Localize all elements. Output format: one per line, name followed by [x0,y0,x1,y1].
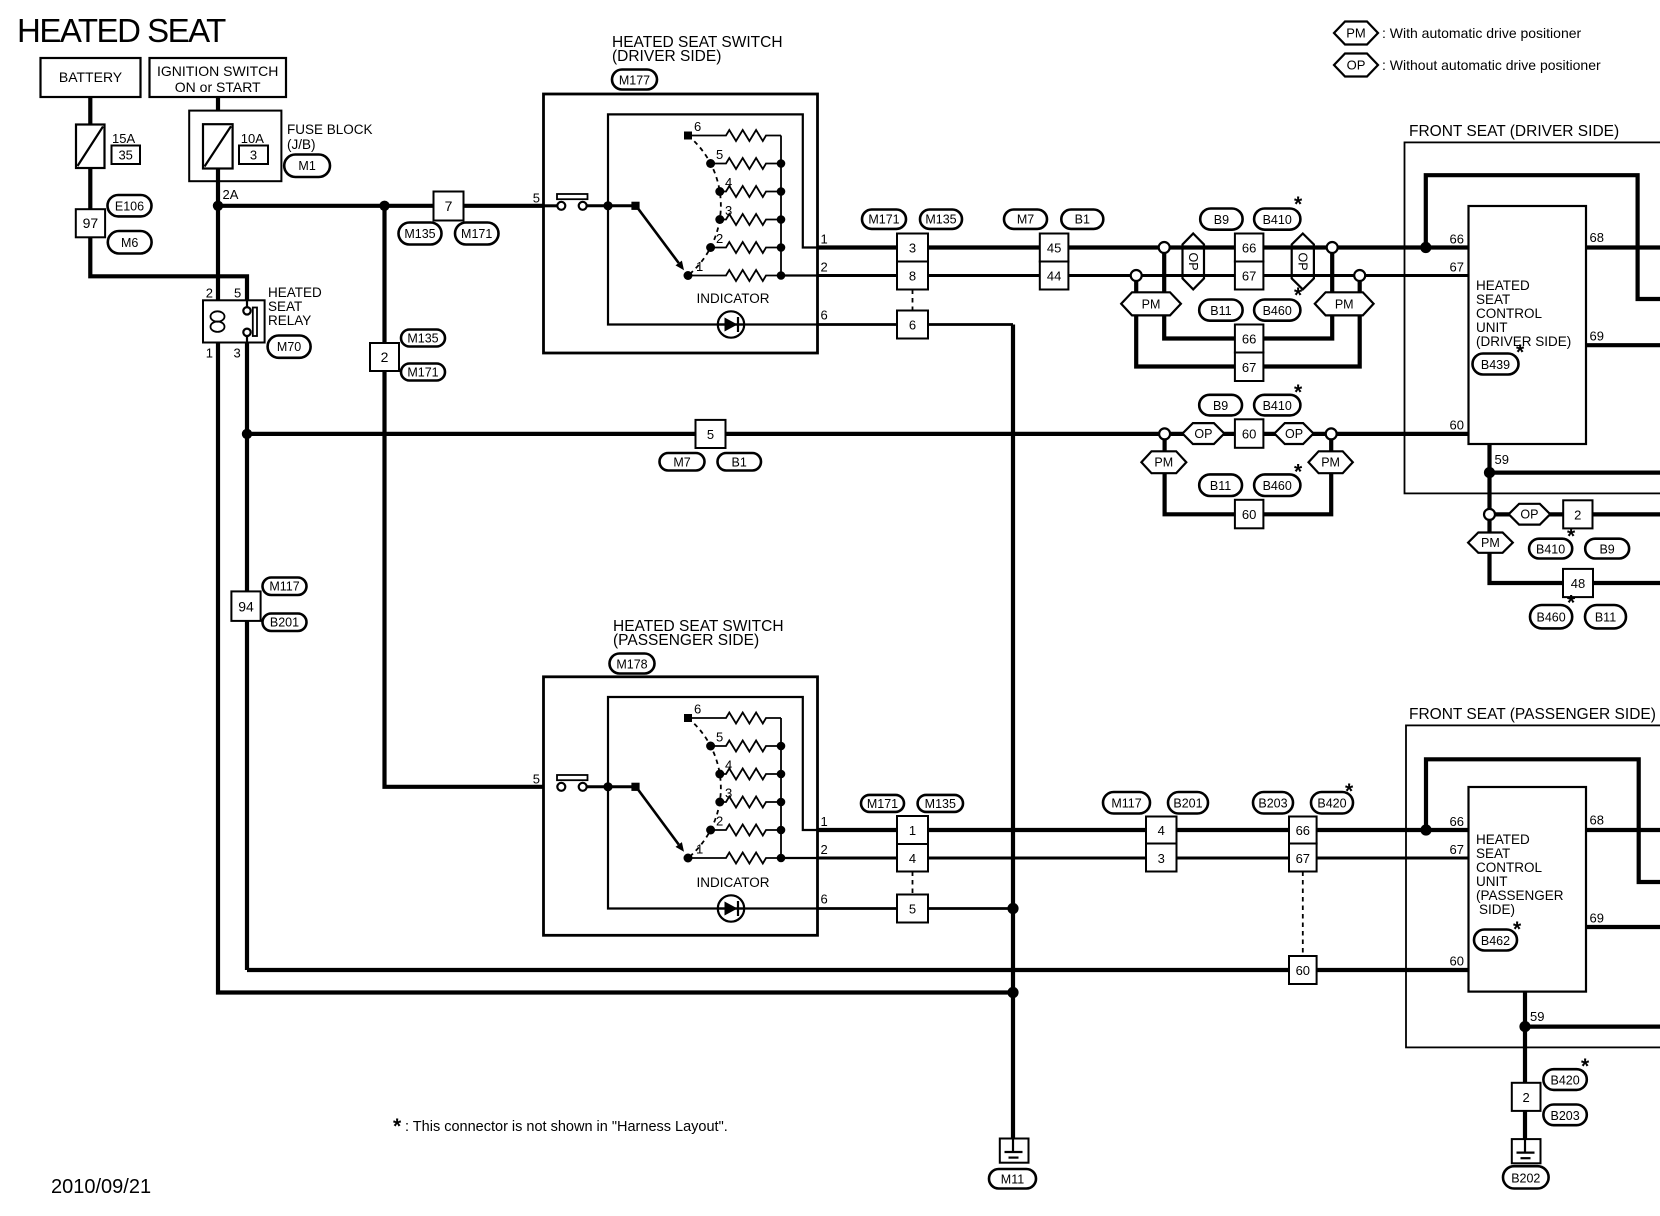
svg-text:B410: B410 [1263,213,1292,227]
driver thick feed loop top [1426,175,1660,299]
svg-text:M135: M135 [407,332,438,346]
passenger switch position 3 contact [715,798,724,807]
connector label B1 [1061,210,1103,229]
svg-text:ON or START: ON or START [175,79,261,95]
junction indicator return to ground column [1007,903,1018,914]
driver switch position 3 contact [715,215,724,224]
svg-text:60: 60 [1296,963,1310,978]
wire circle to OP connector 2 [1495,512,1563,516]
junction driver pin 66 node [1420,242,1431,253]
wire passenger feed column [385,206,544,787]
svg-text:M7: M7 [673,456,690,470]
connector label M117 [1103,792,1150,814]
svg-text:5: 5 [716,147,723,162]
svg-text:66: 66 [1450,814,1464,829]
wire connector 48 output right [1593,581,1660,585]
wire driver unit pin 59 down [1487,444,1491,514]
passenger switch indicator LED diode [718,895,744,921]
driver switch pushbutton contacts [557,202,565,210]
svg-text:66: 66 [1296,823,1310,838]
svg-text:OP: OP [1347,58,1366,73]
svg-text:M171: M171 [868,213,899,227]
driver PM hexagon right [1315,292,1374,315]
connector 4/3 M117/B201 [1146,817,1177,844]
svg-text:35: 35 [118,148,132,163]
connector label B410 with asterisk [1254,395,1300,416]
svg-text:B9: B9 [1214,213,1229,227]
svg-text:FUSE BLOCK: FUSE BLOCK [287,122,373,137]
svg-text:60: 60 [1242,507,1256,522]
driver switch pushbutton wire out [587,204,636,207]
svg-text:HEATED: HEATED [1476,832,1530,847]
svg-text:*: * [1294,193,1303,216]
svg-text:M70: M70 [277,340,301,354]
driver switch junction on bus [603,201,612,210]
connector label B9 [1585,539,1629,559]
svg-text:B410: B410 [1263,399,1292,413]
svg-text:5: 5 [909,902,916,917]
svg-text:2: 2 [1522,1090,1529,1105]
driver switch resistor row 1 [688,270,781,281]
wire 60 row right segment to control unit [1331,432,1468,436]
wire bottom feed run to passenger unit pin 60 [247,968,1469,972]
driver switch pushbutton wire in [544,204,558,207]
connector label B9 [1200,209,1242,230]
passenger switch resistor row 5 [711,741,781,752]
svg-text:5: 5 [707,427,714,442]
svg-text:B460: B460 [1263,304,1292,318]
dashed connector link 4 to 5 [912,872,914,895]
driver switch resistor bus [780,136,782,276]
connector label B462 with asterisk [1474,930,1517,951]
svg-text:M11: M11 [1001,1173,1024,1187]
dashed connector link 67 to 60 [1302,872,1304,957]
svg-text:CONTROL: CONTROL [1476,860,1542,875]
front seat passenger side box [1406,725,1660,1047]
connector label B201 [1168,792,1208,814]
battery B+ box [41,58,141,97]
driver switch position 6 contact [684,132,692,140]
relay contact bar [253,308,257,337]
passenger switch resistor bus [780,718,782,858]
connector label B11 [1585,605,1626,628]
svg-text:: This connector is not shown: : This connector is not shown in "Harnes… [405,1119,728,1135]
svg-text:67: 67 [1242,269,1256,284]
driver switch pin 2 inner wire [781,274,818,276]
connector label B11 [1199,474,1242,496]
branch circles on 66/67 rows [1159,242,1170,253]
svg-text:M117: M117 [1111,797,1141,811]
svg-text:60: 60 [1450,418,1464,433]
wire 59 row output right [1525,1024,1660,1028]
connector 60 OP B9/B410 [1235,419,1264,448]
svg-text:2: 2 [381,349,389,365]
svg-text:M135: M135 [404,227,435,241]
svg-text:B1: B1 [1075,213,1090,227]
passenger switch position 4 contact [715,770,724,779]
svg-text:M177: M177 [619,74,650,88]
svg-text:67: 67 [1450,842,1464,857]
svg-text:6: 6 [821,892,828,907]
wire ignition to fuse block [216,97,220,124]
svg-text:*: * [1294,461,1303,484]
connector 66/67 PM pair B11/B460 [1235,325,1264,353]
driver switch position 1 contact [684,271,693,280]
junction passenger feed tap [379,201,389,211]
wire passenger unit pin 69 output [1586,925,1660,929]
wire 97 down and right to relay pin 5 [90,237,247,300]
svg-text:B410: B410 [1536,543,1565,557]
svg-text:66: 66 [1242,241,1256,256]
svg-text:PM: PM [1321,456,1340,470]
svg-text:5: 5 [533,191,540,206]
junction 2A [213,201,223,211]
svg-text:2010/09/21: 2010/09/21 [51,1176,151,1198]
svg-text:15A: 15A [112,131,135,146]
svg-text:67: 67 [1242,360,1256,375]
svg-text:M171: M171 [461,227,492,241]
driver inline connector OP hexagon right (vertical) [1292,234,1314,290]
junction passenger 59 node [1519,1021,1530,1032]
svg-text:B460: B460 [1536,611,1565,625]
wire passenger unit pin 68 output [1586,828,1660,832]
svg-text:B462: B462 [1481,934,1510,948]
svg-text:FRONT SEAT (PASSENGER SIDE): FRONT SEAT (PASSENGER SIDE) [1409,706,1656,723]
passenger switch resistor row 2 [711,825,781,836]
driver switch selector arm with arrow [636,206,679,263]
svg-text:M1: M1 [298,159,315,173]
svg-text:45: 45 [1047,241,1061,256]
junction relay output to driver unit 60 row [242,429,252,439]
svg-text:69: 69 [1590,329,1604,344]
junction relay coil return to ground column [1007,987,1018,998]
svg-text:2: 2 [821,260,828,275]
svg-text:B11: B11 [1210,479,1231,493]
svg-text:PM: PM [1335,297,1354,311]
svg-text:48: 48 [1571,576,1585,591]
connector label M135 [401,330,445,347]
driver 60 PM hexagon right [1309,451,1353,473]
svg-text:2: 2 [716,231,723,246]
driver 60 row PM bypass wire [1165,434,1332,514]
connector label B410 with asterisk [1529,539,1572,559]
svg-text:*: * [1294,381,1303,404]
wire relay pin 1 to ground run [218,343,1013,993]
svg-text:*: * [393,1115,402,1138]
passenger switch pushbutton contacts [557,783,565,791]
svg-text:B11: B11 [1210,304,1231,318]
svg-text:OP: OP [1520,508,1538,522]
svg-text:B420: B420 [1317,797,1346,811]
ground symbol M11 [1000,1139,1029,1163]
passenger switch bus junctions [777,742,786,751]
svg-text:B11: B11 [1595,611,1616,625]
svg-text:68: 68 [1590,813,1604,828]
svg-text:PM: PM [1142,297,1161,311]
driver PM hexagon left [1121,292,1181,315]
svg-text:M7: M7 [1017,213,1034,227]
heated seat switch driver side box [544,94,818,353]
branch circle 59 OP/PM [1484,509,1495,520]
passenger switch junction on bus [603,782,612,791]
svg-text:*: * [1345,780,1354,803]
svg-text:59: 59 [1495,452,1509,467]
heated seat control unit driver side box [1469,206,1587,444]
svg-text:97: 97 [83,215,99,231]
svg-text:67: 67 [1296,851,1310,866]
connector label M171 [401,364,445,381]
driver 60 OP hexagon right [1274,423,1313,444]
svg-text:OP: OP [1285,427,1303,441]
svg-text:8: 8 [909,269,916,284]
svg-text:10A: 10A [241,131,264,146]
svg-text:68: 68 [1590,230,1604,245]
connector label B460 with asterisk [1254,474,1300,496]
passenger thick feed loop top [1426,759,1660,882]
svg-text:PM: PM [1154,456,1173,470]
connector label B460 with asterisk [1254,300,1300,321]
passenger switch position 5 contact [706,742,715,751]
driver switch bus junctions [777,159,786,168]
wire passenger switch pin 2 to control unit pin 67 [818,857,1469,860]
svg-text:*: * [1516,341,1525,364]
svg-text:B9: B9 [1213,399,1228,413]
wire node 2A to relay pin 2 coil [216,206,220,312]
connector label M171 [862,210,906,229]
svg-text:BATTERY: BATTERY [59,69,123,85]
svg-text:69: 69 [1590,911,1604,926]
driver switch position 4 contact [715,187,724,196]
relay contact pin 5 [246,300,248,307]
svg-text:44: 44 [1047,269,1061,284]
wire 59 row output right [1490,471,1660,475]
svg-text:1: 1 [206,346,213,361]
front seat driver side box [1405,142,1660,493]
passenger switch resistor row 6 [688,713,781,724]
connector label B420 with asterisk [1311,792,1353,814]
ground symbol B202 [1512,1139,1541,1163]
connector 5 [897,895,928,923]
connector label E106 [108,195,152,216]
driver switch resistor row 3 [720,214,781,225]
svg-text:M178: M178 [616,658,647,672]
connector label B202 [1503,1166,1549,1188]
svg-text:2A: 2A [223,187,239,202]
connector label M1 [284,155,330,178]
svg-text:FRONT SEAT (DRIVER SIDE): FRONT SEAT (DRIVER SIDE) [1409,123,1619,140]
svg-text:5: 5 [716,730,723,745]
connector 48 PM B460/B11 [1563,569,1593,597]
connector 60 [1289,956,1317,984]
svg-text:B201: B201 [1173,797,1202,811]
connector label M177 [612,70,657,90]
branch circles on 60 row [1159,428,1170,439]
svg-text:3: 3 [909,241,916,256]
fuse block J/B box [189,111,281,182]
connector 66/67 OP pair B9/B410 [1235,234,1264,262]
connector label B460 with asterisk [1530,605,1572,628]
connector 2 OP B410/B9 [1563,500,1592,528]
legend PM symbol [1334,22,1378,45]
ground column wire to M11 [1011,325,1015,1139]
wire driver switch pin 2 to control unit pin 67 [818,274,1469,277]
svg-text:CONTROL: CONTROL [1476,306,1542,321]
passenger switch selector pivot [631,783,639,791]
svg-text:E106: E106 [115,200,144,214]
svg-text:INDICATOR: INDICATOR [696,291,769,306]
svg-text:B202: B202 [1511,1172,1540,1186]
wire relay pin 3 down to heater feed run [245,343,249,971]
wire driver switch pin 6 to ground column [818,323,1014,326]
driver switch indicator wire (pin6 path) [608,206,818,325]
svg-text:(PASSENGER: (PASSENGER [1476,888,1564,903]
svg-text:6: 6 [694,119,701,134]
connector label B410 with asterisk [1254,209,1300,230]
svg-text:SEAT: SEAT [1476,846,1510,861]
connector label M7 [1004,210,1047,229]
svg-text:1: 1 [821,232,828,247]
svg-text:OP: OP [1186,252,1200,270]
svg-text:B203: B203 [1258,797,1287,811]
svg-text:SIDE): SIDE) [1479,902,1515,917]
driver 60 PM hexagon left [1141,451,1186,473]
passenger switch selector dashed arc [688,718,721,858]
connector label M178 [610,654,655,674]
svg-text:IGNITION SWITCH: IGNITION SWITCH [157,63,278,79]
svg-text:6: 6 [909,318,916,333]
driver 60 row connector 5 M7/B1 [696,420,726,448]
relay contact pin 3 [243,329,250,336]
wire passenger unit pin 59 down to ground [1523,992,1527,1140]
svg-text:OP: OP [1295,252,1309,270]
svg-text:6: 6 [821,308,828,323]
connector label M171 [455,223,499,245]
svg-text:*: * [1567,592,1576,615]
svg-text:INDICATOR: INDICATOR [696,875,769,890]
connector 94 M117/B201 [231,591,260,621]
svg-text:2: 2 [1574,508,1581,523]
wire driver unit pin 69 output [1586,343,1660,347]
svg-text:M6: M6 [121,236,138,250]
svg-text:*: * [1581,1055,1590,1078]
driver 60 OP hexagon left [1183,423,1225,444]
svg-text:PM: PM [1481,536,1500,550]
connector label B11 [1199,300,1242,321]
connector label M117 [263,578,307,596]
heated seat switch passenger side box [544,677,818,936]
connector 97 E106/M6 [76,209,105,237]
heated seat control unit passenger side box [1469,787,1587,992]
connector label B1 [718,453,762,471]
svg-text:1: 1 [696,842,703,857]
wire battery to fuse 35 [88,97,92,125]
connector label B203 [1543,1105,1586,1126]
passenger switch resistor row 1 [688,853,781,864]
svg-text:1: 1 [696,259,703,274]
heated seat relay M70 box [203,300,265,342]
svg-text:6: 6 [694,702,701,717]
svg-text:HEATED: HEATED [1476,278,1530,293]
driver switch selector dashed arc [688,136,721,276]
legend OP symbol [1334,54,1378,77]
wire driver 60 row [247,432,1331,436]
svg-text:(DRIVER SIDE): (DRIVER SIDE) [612,48,721,65]
svg-text:M171: M171 [407,366,438,380]
driver switch pushbutton actuator bar [557,194,588,199]
connector 3/8 M171/M135 [897,234,928,262]
svg-text:B460: B460 [1263,479,1292,493]
svg-text:2: 2 [821,842,828,857]
driver switch position 2 contact [706,243,715,252]
svg-text:4: 4 [909,851,916,866]
svg-text:PM: PM [1346,26,1366,41]
svg-text:67: 67 [1450,260,1464,275]
connector label B201 [263,614,307,632]
wire main ignition feed row to driver switch pin 5 [218,204,544,208]
wire 59 PM branch down [1490,520,1564,583]
passenger switch pin 2 inner wire [781,857,818,859]
svg-text:60: 60 [1450,954,1464,969]
wire passenger switch pin 1 to control unit pin 66 [818,828,1469,832]
svg-text:UNIT: UNIT [1476,874,1508,889]
passenger switch selector arm with arrow [636,787,679,845]
svg-text:1: 1 [909,823,916,838]
connector label M171 [861,795,904,812]
svg-text:2: 2 [206,286,213,301]
svg-text:5: 5 [234,286,241,301]
svg-text:7: 7 [445,198,453,214]
svg-text:2: 2 [716,814,723,829]
wire driver unit pin 68 output [1586,245,1660,249]
driver switch resistor row 5 [711,158,781,169]
connector 66/67 B203/B420 [1289,817,1317,844]
driver 66/67 PM bypass wires [1164,248,1332,339]
junction 59 node [1484,467,1495,478]
svg-text:B420: B420 [1550,1074,1579,1088]
svg-text:3: 3 [234,346,241,361]
svg-text:: With automatic drive positio: : With automatic drive positioner [1382,25,1582,41]
svg-text:: Without automatic drive posi: : Without automatic drive positioner [1382,57,1601,73]
passenger switch resistor row 3 [720,797,781,808]
svg-text:94: 94 [238,599,254,615]
svg-text:(PASSENGER SIDE): (PASSENGER SIDE) [613,632,759,649]
svg-text:SEAT: SEAT [1476,292,1510,307]
connector label M11 [989,1169,1036,1189]
driver switch selector pivot [631,202,639,210]
svg-text:*: * [1567,525,1576,548]
connector 1/4 M171/M135 [897,816,928,844]
driver inline connector OP hexagon left (vertical, wires pass over) [1183,234,1205,290]
connector label M70 [268,336,311,358]
svg-text:66: 66 [1242,332,1256,347]
svg-text:B203: B203 [1550,1109,1579,1123]
svg-text:66: 66 [1450,232,1464,247]
connector label M6 [108,231,152,254]
dashed connector link 8 to 6 [912,290,914,311]
passenger switch common bus wire (pin1 path) [608,697,818,830]
driver 59 PM hexagon [1468,533,1513,553]
svg-text:M171: M171 [867,797,898,811]
driver switch common bus wire (pin1 path) [608,114,818,247]
svg-text:B201: B201 [270,616,299,630]
passenger switch indicator wire (pin6 path) [608,787,818,909]
svg-text:M135: M135 [925,797,956,811]
passenger switch position 6 contact [684,714,692,722]
connector label B439 with asterisk [1473,354,1519,375]
svg-text:UNIT: UNIT [1476,320,1508,335]
wire driver switch pin 1 to control unit pin 66 [818,245,1469,249]
connector label B420 with asterisk [1543,1069,1586,1090]
